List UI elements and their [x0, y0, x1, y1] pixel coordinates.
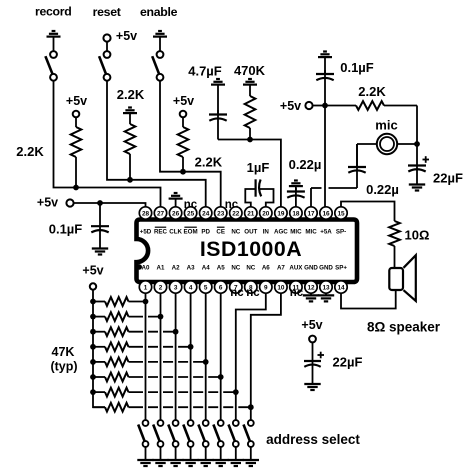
- ground (C2): [211, 79, 225, 114]
- switch S2 reset: [99, 51, 110, 81]
- switch S5 address A1: [153, 420, 163, 459]
- svg-text:AUX: AUX: [289, 265, 303, 272]
- svg-text:NC: NC: [231, 265, 240, 272]
- ground (address switch A5): [213, 460, 229, 466]
- svg-text:EOM: EOM: [184, 229, 198, 236]
- resistor R4 470K: [245, 96, 256, 140]
- svg-text:10: 10: [277, 284, 285, 291]
- resistors R7-R14 47K address pull-ups: [93, 297, 251, 412]
- +5v terminal (digital supply): [37, 196, 74, 210]
- capacitor C3 1uF: [256, 179, 262, 196]
- junction record node: [73, 185, 79, 191]
- svg-text:2: 2: [159, 284, 163, 291]
- resistor R5 2.2K mic bias: [325, 101, 417, 110]
- label 2.2K (R2): [117, 87, 145, 102]
- label 4.7uF (C2): [188, 64, 222, 79]
- capacitor C4 0.22uF: [287, 188, 305, 207]
- svg-text:+5D: +5D: [140, 229, 152, 236]
- label 2.2K (R1): [16, 144, 44, 159]
- resistor R2 2.2K reset pull-down: [125, 124, 136, 180]
- junction +5A node: [322, 103, 328, 109]
- capacitor C6 0.22uF coupling: [348, 144, 366, 188]
- svg-text:1µF: 1µF: [247, 160, 270, 175]
- +5v terminal (enable pull-up): [173, 94, 194, 127]
- svg-text:8Ω speaker: 8Ω speaker: [367, 320, 441, 335]
- label ISD1000A: [200, 237, 302, 261]
- ground (pin 12 GND): [303, 293, 319, 302]
- svg-text:+5v: +5v: [37, 196, 58, 210]
- label 22uF (C8): [333, 355, 363, 370]
- label 0.1uF (C1): [49, 222, 83, 237]
- svg-text:A0: A0: [142, 265, 150, 272]
- wire record switch to pin 27 (REC): [54, 81, 161, 207]
- switch S4 address A0: [138, 420, 148, 459]
- switch S6 address A2: [168, 420, 178, 459]
- wire C3 to pin 20: [259, 189, 273, 207]
- svg-text:12: 12: [307, 284, 315, 291]
- junction +5D node: [97, 200, 103, 206]
- plus sign (C7): [423, 156, 430, 163]
- label reset: [93, 5, 121, 19]
- svg-text:+5v: +5v: [116, 29, 137, 43]
- resistor R3 2.2K enable pull-up: [178, 127, 189, 172]
- svg-text:2.2K: 2.2K: [358, 84, 386, 99]
- svg-text:nc: nc: [246, 287, 260, 299]
- wire A6 (pin 9) to switch 7: [236, 293, 266, 420]
- label nc (pin 8): [246, 287, 260, 299]
- junctions address rows to columns: [143, 299, 254, 411]
- ground (address switch A1): [152, 460, 168, 466]
- svg-text:0.1µF: 0.1µF: [49, 222, 83, 237]
- svg-text:+5v: +5v: [173, 94, 194, 108]
- switch S11 address A7: [244, 420, 254, 459]
- ground (C5): [318, 52, 332, 74]
- svg-text:SP+: SP+: [335, 265, 347, 272]
- ground (pin 26 CLK): [169, 193, 183, 207]
- svg-text:10Ω: 10Ω: [405, 228, 430, 243]
- ground (address switch A6): [228, 460, 244, 466]
- IC top pin labels (+5D REC CLK EOM PD CE NC OUT IN AGC MIC MIC +5A SP-): [140, 227, 346, 235]
- wire reset switch to pin 24 (PD): [107, 81, 206, 207]
- junction AGC node: [247, 137, 253, 143]
- svg-text:PD: PD: [201, 229, 210, 236]
- wire enable switch to pin 23 (CE): [160, 81, 221, 207]
- svg-text:A1: A1: [157, 265, 165, 272]
- svg-text:nc: nc: [290, 287, 304, 299]
- svg-text:nc: nc: [230, 287, 244, 299]
- junction enable node: [180, 169, 186, 175]
- svg-text:22: 22: [232, 210, 240, 217]
- svg-text:REC: REC: [154, 229, 168, 236]
- svg-text:NC: NC: [231, 229, 240, 236]
- svg-text:13: 13: [322, 284, 330, 291]
- plus sign (C8): [318, 352, 325, 359]
- svg-text:AGC: AGC: [274, 229, 288, 236]
- +5v terminal (reset switch): [103, 29, 137, 51]
- label nc (pin 25): [184, 199, 198, 211]
- capacitor C8 22uF: [304, 342, 321, 383]
- svg-text:470K: 470K: [234, 63, 266, 78]
- svg-text:A2: A2: [172, 265, 180, 272]
- ground (C8): [304, 384, 320, 390]
- svg-text:(typ): (typ): [50, 360, 77, 374]
- svg-text:9: 9: [264, 284, 268, 291]
- svg-text:19: 19: [277, 210, 285, 217]
- junction reset node: [127, 177, 133, 183]
- svg-text:address select: address select: [266, 432, 360, 447]
- +5v terminal (C8): [301, 318, 322, 342]
- ground (pin 13 GND): [318, 293, 334, 302]
- IC U1 ISD1000A body: [137, 220, 358, 283]
- wire A7 (pin 10) to switch 8: [251, 293, 281, 420]
- ground (address switch A3): [182, 460, 198, 466]
- svg-text:15: 15: [337, 210, 345, 217]
- label nc (pin 7): [230, 287, 244, 299]
- svg-text:reset: reset: [93, 5, 121, 19]
- svg-text:27: 27: [157, 210, 165, 217]
- svg-text:4.7µF: 4.7µF: [188, 64, 222, 79]
- svg-text:2.2K: 2.2K: [195, 155, 223, 170]
- svg-text:enable: enable: [140, 5, 178, 19]
- svg-text:A5: A5: [217, 265, 225, 272]
- junctions on +5v rail: [90, 299, 96, 395]
- label enable: [140, 5, 178, 19]
- svg-text:+5v: +5v: [82, 264, 103, 278]
- svg-text:1: 1: [144, 284, 148, 291]
- wires A0-A5 (pins 1-6) to switches: [146, 293, 221, 420]
- ground (C7): [409, 185, 425, 191]
- svg-text:25: 25: [187, 210, 195, 217]
- svg-text:+5v: +5v: [280, 99, 301, 113]
- svg-text:MIC: MIC: [290, 229, 302, 236]
- svg-text:+5v: +5v: [66, 94, 87, 108]
- svg-text:+5v: +5v: [301, 318, 322, 332]
- svg-text:GND: GND: [304, 265, 318, 272]
- svg-text:22µF: 22µF: [333, 355, 363, 370]
- svg-text:22µF: 22µF: [433, 171, 463, 186]
- svg-text:0.22µ: 0.22µ: [366, 182, 399, 197]
- label 8 ohm speaker: [367, 320, 441, 335]
- IC bottom pins 1-14: [139, 281, 347, 293]
- label 47K: [52, 345, 75, 359]
- svg-text:20: 20: [262, 210, 270, 217]
- ground (address switch A2): [167, 460, 183, 466]
- IC bottom pin labels (A0-A7 AUX GND GND SP+): [142, 265, 348, 272]
- ground (C1): [92, 249, 108, 255]
- svg-text:record: record: [35, 5, 71, 19]
- svg-text:21: 21: [247, 210, 255, 217]
- svg-text:A4: A4: [202, 265, 210, 272]
- wire +5v to pin 28 (+5D): [74, 203, 146, 207]
- label nc (pin 22): [225, 199, 239, 211]
- label record: [35, 5, 71, 19]
- svg-text:CLK: CLK: [169, 229, 182, 236]
- +5v terminal (record pull-up): [66, 94, 87, 127]
- capacitor C7 22uF mic filter: [408, 144, 426, 184]
- svg-text:26: 26: [172, 210, 180, 217]
- IC top pins 28-15: [139, 207, 347, 219]
- svg-text:A7: A7: [277, 265, 285, 272]
- label 10 ohm (R6): [405, 228, 430, 243]
- resistor R1 2.2K record pull-up: [71, 127, 82, 188]
- svg-text:CE: CE: [216, 229, 225, 236]
- svg-text:NC: NC: [246, 265, 255, 272]
- switch S3 enable: [152, 51, 163, 81]
- speaker LS1: [389, 255, 416, 301]
- label 22uF (C7): [433, 171, 463, 186]
- svg-text:4: 4: [189, 284, 193, 291]
- svg-text:16: 16: [322, 210, 330, 217]
- svg-text:GND: GND: [319, 265, 333, 272]
- svg-text:5: 5: [204, 284, 208, 291]
- label 2.2K (R5): [358, 84, 386, 99]
- svg-text:23: 23: [217, 210, 225, 217]
- label 470K (R4): [234, 63, 266, 78]
- resistor R6 10 ohm: [389, 221, 400, 268]
- wire mic to coupling cap: [357, 144, 377, 167]
- ground (address switch A0): [137, 460, 153, 466]
- svg-text:ISD1000A: ISD1000A: [200, 237, 302, 261]
- switch S10 address A6: [229, 420, 239, 459]
- ground (record switch common): [47, 31, 61, 51]
- label 2.2K (R3): [195, 155, 223, 170]
- +5v terminal (address rail): [82, 264, 103, 290]
- svg-text:0.22µ: 0.22µ: [289, 157, 322, 172]
- wire mic to bias node: [397, 143, 417, 145]
- ground (address switch A4): [198, 460, 214, 466]
- wire coupling cap to pin 17 (MIC): [311, 188, 357, 207]
- wire AGC net to pin 19: [218, 140, 281, 207]
- wire +5v address rail: [93, 290, 105, 408]
- svg-text:+5A: +5A: [320, 229, 332, 236]
- svg-text:3: 3: [174, 284, 178, 291]
- ground (enable switch common): [153, 31, 167, 51]
- ground (pin 18 cap): [289, 181, 303, 192]
- label 0.1uF (C5): [340, 60, 374, 75]
- svg-text:47K: 47K: [52, 345, 75, 359]
- switch S1 record: [45, 51, 56, 81]
- wire pin 21 to C3: [245, 189, 254, 207]
- pin 1 marker dot: [137, 264, 142, 269]
- svg-text:28: 28: [142, 210, 150, 217]
- svg-text:14: 14: [337, 284, 345, 291]
- switch S9 address A5: [213, 420, 223, 459]
- junction mic bias node: [414, 141, 420, 147]
- switch S7 address A3: [183, 420, 193, 459]
- switch S8 address A4: [198, 420, 208, 459]
- label 0.22u (C6): [366, 182, 399, 197]
- wire pin 15 (SP-) to R6: [341, 202, 395, 222]
- +5v terminal (analog supply): [280, 99, 325, 113]
- svg-text:IN: IN: [263, 229, 270, 236]
- svg-text:A3: A3: [187, 265, 195, 272]
- capacitor C5 0.1uF: [316, 70, 334, 106]
- ground (address switch A7): [243, 460, 259, 466]
- svg-text:24: 24: [202, 210, 210, 217]
- svg-text:18: 18: [292, 210, 300, 217]
- label mic: [375, 118, 397, 133]
- svg-text:0.1µF: 0.1µF: [340, 60, 374, 75]
- label nc (pin 11): [290, 287, 304, 299]
- wire mic bias down: [416, 106, 418, 145]
- label 0.22u (pin 18 cap): [289, 157, 322, 172]
- label (typ): [50, 360, 77, 374]
- microphone MIC1: [377, 134, 397, 154]
- svg-text:6: 6: [219, 284, 223, 291]
- svg-text:OUT: OUT: [244, 229, 257, 236]
- svg-text:MIC: MIC: [305, 229, 317, 236]
- svg-text:mic: mic: [375, 118, 397, 133]
- label 1uF (C3): [247, 160, 270, 175]
- svg-text:17: 17: [307, 210, 315, 217]
- wire speaker to pin 14 (SP+): [341, 290, 396, 309]
- svg-text:A6: A6: [262, 265, 270, 272]
- ground (R4): [243, 79, 257, 96]
- capacitor C1 0.1uF decoupling: [91, 203, 109, 248]
- ground (reset pull-down): [123, 108, 137, 125]
- wire +5v rail to pin 16 (+5A): [324, 106, 326, 207]
- svg-text:2.2K: 2.2K: [16, 144, 44, 159]
- svg-text:SP-: SP-: [336, 229, 346, 236]
- capacitor C2 4.7uF: [209, 110, 227, 140]
- label address select: [266, 432, 360, 447]
- svg-text:2.2K: 2.2K: [117, 87, 145, 102]
